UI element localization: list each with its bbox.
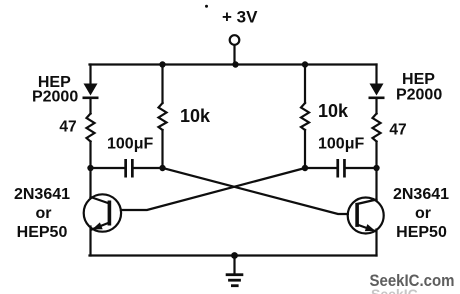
svg-text:HEP50: HEP50 bbox=[17, 224, 68, 241]
svg-text:2N3641: 2N3641 bbox=[393, 186, 449, 203]
svg-text:100μF: 100μF bbox=[107, 136, 153, 153]
svg-text:47: 47 bbox=[389, 122, 406, 139]
svg-text:47: 47 bbox=[59, 119, 76, 136]
svg-text:SeekIC: SeekIC bbox=[371, 286, 418, 294]
svg-text:+ 3V: + 3V bbox=[222, 8, 258, 27]
svg-text:P2000: P2000 bbox=[32, 88, 78, 105]
svg-text:or: or bbox=[36, 205, 52, 222]
svg-text:2N3641: 2N3641 bbox=[14, 186, 70, 203]
svg-text:10k: 10k bbox=[180, 106, 211, 126]
svg-text:100μF: 100μF bbox=[318, 136, 364, 153]
svg-text:P2000: P2000 bbox=[396, 86, 442, 103]
svg-text:HEP50: HEP50 bbox=[396, 224, 447, 241]
svg-text:or: or bbox=[415, 205, 431, 222]
svg-text:10k: 10k bbox=[318, 101, 349, 121]
